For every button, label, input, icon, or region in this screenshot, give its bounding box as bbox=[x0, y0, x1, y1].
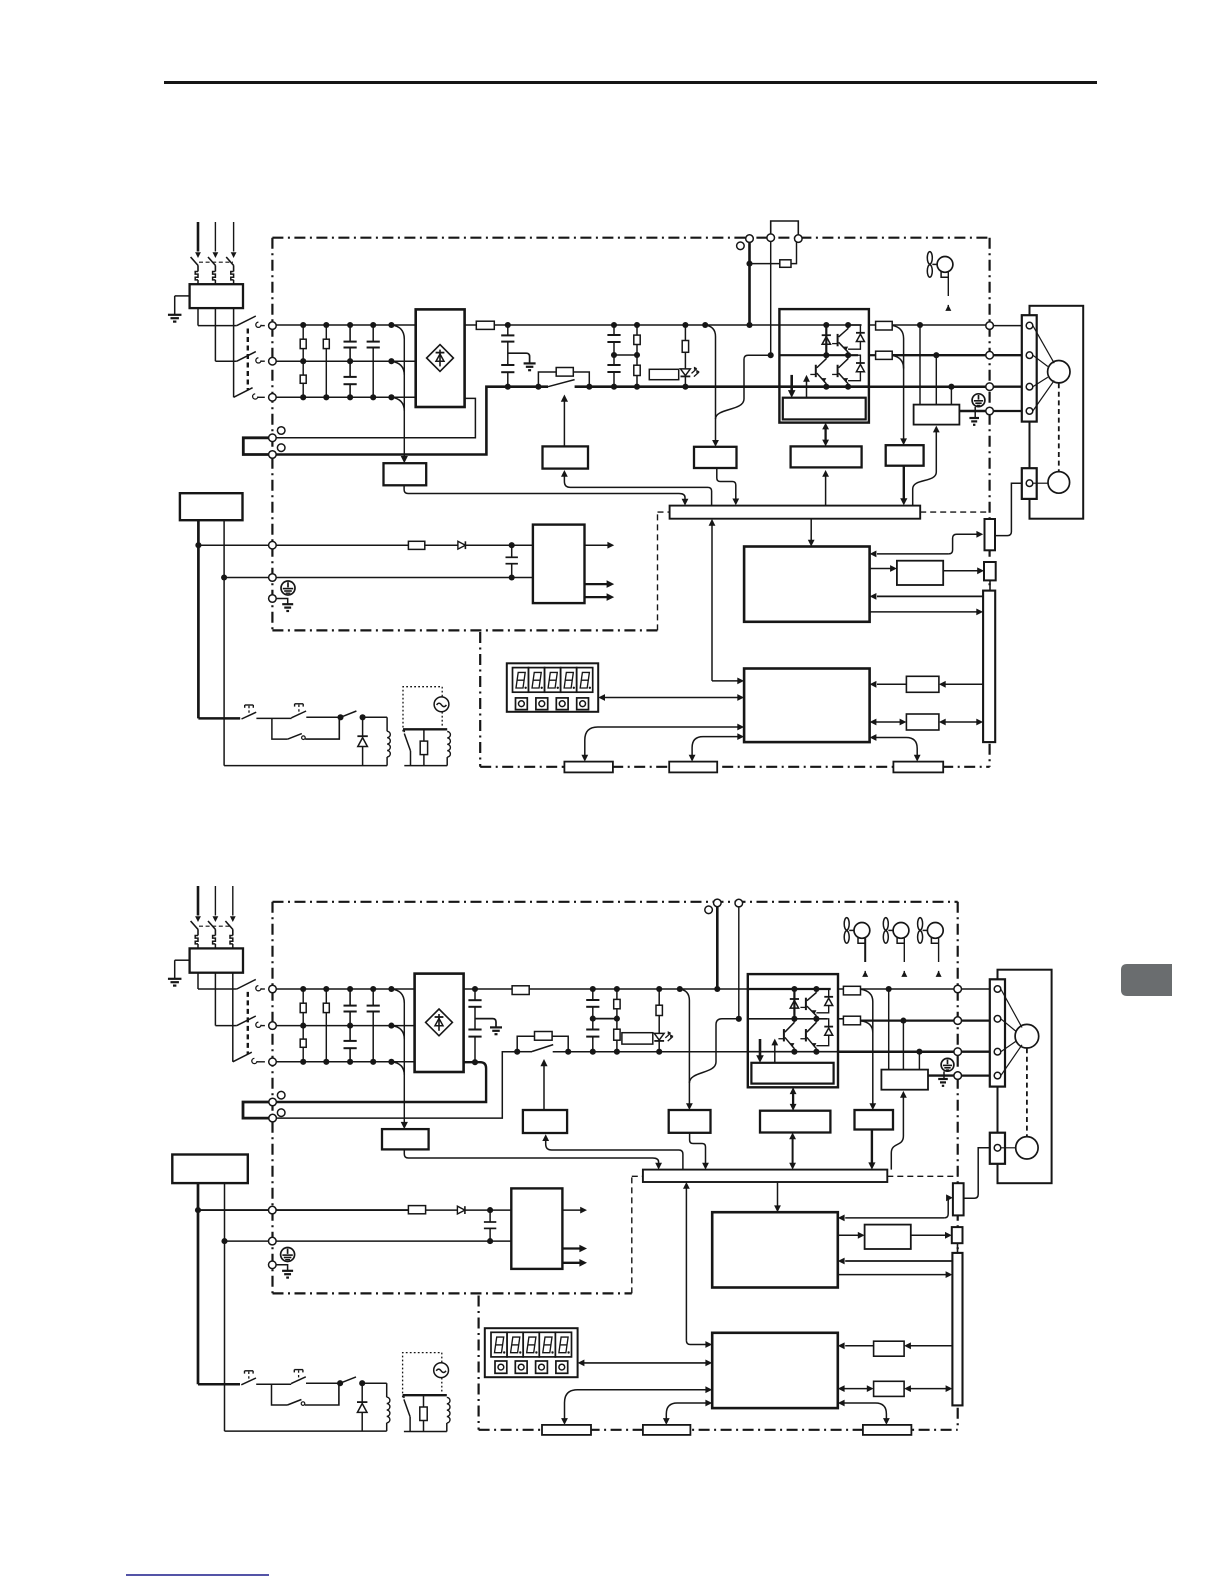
motor connector pins 2 bbox=[994, 986, 1001, 993]
brake surge resistor bbox=[423, 729, 425, 741]
magnetic contactor pole 2 bbox=[237, 352, 256, 362]
N rail inside module bbox=[779, 385, 869, 388]
dynamic brake taps from U V W bbox=[919, 325, 921, 405]
wire pushbutton to junction bbox=[306, 716, 340, 718]
CN3 connector block bbox=[669, 762, 717, 773]
regen IGBT 2 (module left bottom) bbox=[783, 1029, 785, 1041]
protective earth symbol 2 bbox=[941, 1058, 954, 1071]
gate drive box 2 bbox=[751, 1063, 833, 1084]
motor shaft to encoder 2 (dashed) bbox=[1026, 1048, 1028, 1136]
junction L2C bbox=[221, 574, 227, 580]
P rail inside module bbox=[779, 324, 861, 326]
servopack 2 enclosure border left bbox=[271, 902, 273, 1294]
motor power connector 2 bbox=[990, 979, 1005, 1086]
junction P sense tap bbox=[702, 322, 708, 328]
terminal B2 2 bbox=[735, 899, 743, 907]
chapter tab (grey) bbox=[1121, 964, 1172, 996]
encoder connector bbox=[1022, 468, 1037, 499]
terminal spare B1 bbox=[277, 427, 285, 435]
terminal L2 2 bbox=[269, 1022, 277, 1030]
brake surge resistor 2 bbox=[423, 1395, 425, 1407]
wire V output 2 (thick) bbox=[861, 1019, 954, 1021]
control board 2 dashed link right bbox=[887, 1175, 957, 1177]
relay self-holding contact 2 bbox=[340, 1377, 356, 1383]
protective earth symbol (control) bbox=[281, 581, 295, 595]
terminal spare B2 2 bbox=[277, 1109, 285, 1117]
wire PWM control 2 to CN5 bbox=[565, 1390, 707, 1419]
terminal W bbox=[986, 383, 994, 391]
wire PWM control 2 to CN3 block bbox=[666, 1403, 706, 1419]
ground tap 2 bbox=[475, 1019, 496, 1027]
wire filter output L3 2 bbox=[232, 973, 234, 1062]
terminal L2 bbox=[269, 357, 277, 365]
wire capacitor midpoints 2 bbox=[593, 1018, 617, 1020]
wire dynamic brake to motor ground terminal bbox=[959, 410, 985, 412]
upper IGBT with diode (module right) bbox=[837, 334, 839, 346]
terminal -1 2 bbox=[269, 1098, 277, 1106]
wire B2 down to chopper node 2 bbox=[738, 907, 740, 1019]
power module box bbox=[779, 309, 869, 423]
circuit breaker link 2 (dashed) bbox=[199, 925, 232, 927]
header rule bbox=[164, 81, 1097, 84]
terminal B1/+ (regen) bbox=[746, 235, 754, 243]
voltage-sense taps from R S T bbox=[391, 325, 404, 339]
control board border bottom bbox=[480, 766, 989, 768]
motor shaft to encoder (dashed) bbox=[1058, 383, 1060, 471]
wire bus to CPU board (up arrow) bbox=[711, 525, 713, 681]
terminal +1 bbox=[269, 434, 277, 442]
terminal L1 bbox=[269, 322, 277, 330]
wire PWM control to CN5 (analog monitor) bbox=[585, 727, 738, 756]
capacitor pair to ground 2 bbox=[474, 989, 476, 1000]
PWM control box 2 bbox=[712, 1333, 838, 1408]
control power source box 2 (external) bbox=[172, 1155, 248, 1184]
regen IGBT (module left bottom) bbox=[815, 365, 817, 377]
wire bus to inrush relay drive bbox=[564, 476, 711, 505]
ground symbol (noise filter) bbox=[168, 314, 182, 316]
control power source box (external) bbox=[180, 493, 243, 520]
current sensor V 2 bbox=[843, 1016, 860, 1025]
brake relay coil 2 bbox=[447, 1397, 450, 1423]
wire B2 node to voltage detector bbox=[716, 355, 771, 419]
ground wire and symbol (control) bbox=[276, 599, 288, 604]
surge resistor column 1 bbox=[302, 325, 304, 339]
terminal W 2 bbox=[954, 1048, 962, 1056]
noise filter box bbox=[190, 284, 243, 308]
magnetic contactor 2 pole 3 bbox=[233, 1052, 252, 1062]
wire filter output L2 2 bbox=[214, 973, 216, 1026]
servopack 2 enclosure border right bbox=[957, 902, 959, 1430]
current amplifier box bbox=[886, 445, 924, 466]
current amplifier box 2 bbox=[855, 1110, 894, 1130]
wire W output (thick) bbox=[869, 385, 986, 388]
digital operator display box bbox=[507, 663, 598, 712]
pushbutton power ON 2 bbox=[294, 1369, 303, 1371]
circuit breaker mechanical link (dashed) bbox=[199, 261, 233, 263]
servomotor outline box 2 bbox=[998, 970, 1052, 1183]
control supply output arrows 2 bbox=[562, 1209, 581, 1211]
internal regenerative resistor 2 bbox=[622, 1033, 653, 1044]
wire filter output L1 bbox=[197, 308, 199, 326]
power module box 2 bbox=[748, 974, 838, 1087]
module junctions bbox=[823, 322, 829, 328]
wire line L3 to rectifier bbox=[276, 396, 416, 398]
holding contact parallel branch 2 bbox=[272, 1384, 288, 1405]
magnetic contactor 2 pole 2 bbox=[237, 1016, 256, 1026]
servopack 2 enclosure border bottom bbox=[273, 1292, 632, 1294]
wire aux to CN8 bbox=[943, 570, 978, 572]
inrush resistor with bypass contact 2 bbox=[514, 1049, 520, 1055]
CN3 encoder connector 2 bbox=[953, 1183, 964, 1215]
relay coil bbox=[363, 716, 388, 718]
junction L1C bbox=[195, 542, 201, 548]
digital operator display box 2 bbox=[485, 1328, 578, 1377]
flyback diode 2 bbox=[361, 1383, 363, 1402]
charge indicator resistor 2 bbox=[658, 989, 660, 1005]
wire bus to inrush relay drive 2 bbox=[546, 1140, 683, 1169]
wire voltage detector to bus bbox=[717, 468, 736, 500]
wire line L2 to rectifier 2 bbox=[276, 1025, 414, 1027]
wire N bus (thick) bbox=[276, 387, 548, 455]
surge resistor column 2 bbox=[325, 325, 327, 339]
wire bus to dynamic brake 2 bbox=[891, 1097, 903, 1170]
inrush relay drive box 2 bbox=[523, 1110, 567, 1133]
control board 2 border bottom bbox=[479, 1429, 958, 1431]
wires terminals to motor connector bbox=[993, 325, 1021, 327]
bleeder resistor pair 2 bbox=[616, 989, 618, 999]
noise filter box 2 bbox=[190, 948, 243, 972]
rectifier diamond symbol 2 bbox=[426, 1009, 453, 1036]
servopack enclosure border (dash-dot) top bbox=[272, 237, 989, 239]
servopack 2 enclosure border (dash-dot) top bbox=[273, 901, 958, 903]
servopack enclosure border left bbox=[271, 238, 273, 631]
charge indicator LED bbox=[681, 369, 691, 376]
smoothing capacitor bank 2 bbox=[592, 989, 594, 1000]
CN5 connector block bbox=[564, 762, 613, 773]
CN2 encoder connector bbox=[985, 519, 996, 550]
wire P bus bbox=[494, 324, 779, 326]
terminal L1 2 bbox=[269, 985, 277, 993]
CN3 connector block 2 bbox=[643, 1425, 691, 1435]
N rail inside module 2 bbox=[748, 1051, 838, 1053]
control smoothing capacitor bbox=[511, 545, 513, 557]
protective earth symbol bbox=[972, 394, 985, 407]
chopper node rail inside module bbox=[779, 354, 858, 356]
footer rule (blue) bbox=[126, 1574, 269, 1576]
operator buttons bbox=[516, 698, 528, 710]
surge resistor column 1 2 bbox=[302, 989, 304, 1003]
wire main relay line (thick) bbox=[198, 717, 240, 720]
gate drive box (inside module) bbox=[783, 398, 866, 420]
wire rectifier minus output to terminal +1 bbox=[276, 398, 475, 437]
holding contact parallel branch bbox=[272, 718, 288, 739]
terminal spare B2 bbox=[277, 444, 285, 452]
magnetic contactor pole 3 bbox=[234, 388, 253, 398]
DC reactor jumper bar (external) bbox=[243, 438, 268, 455]
wire main relay line 2 (thick) bbox=[198, 1383, 240, 1386]
wire bus 2 down to CPU box bbox=[777, 1182, 779, 1207]
wire L1C line bbox=[198, 544, 268, 546]
I/O isolator box 2 (bidirectional) bbox=[876, 721, 901, 723]
voltage sense box (input) 2 bbox=[382, 1129, 429, 1149]
brake relay top bar 2 (thick) bbox=[403, 1394, 447, 1396]
wire CN1 2 to CPU bbox=[845, 1260, 952, 1262]
ground symbol near W terminal bbox=[974, 407, 976, 418]
cooling fan 3 of 3 bbox=[918, 918, 923, 930]
internal regenerative resistor bbox=[649, 369, 678, 379]
noise filter ground wire 2 bbox=[175, 959, 190, 961]
I/O isolator box 1 bbox=[945, 683, 983, 685]
wire aux 2 to CN8 bbox=[911, 1234, 946, 1236]
encoder connector pin 2 bbox=[994, 1145, 1001, 1152]
wires connector pins to motor bbox=[1033, 326, 1054, 364]
current sensor V bbox=[869, 354, 876, 356]
regen diode 2 (module left top) bbox=[793, 989, 795, 1019]
filter capacitor column 4 bbox=[372, 325, 374, 342]
AC source circle (brake supply 2) bbox=[434, 1363, 449, 1378]
current sensor U 2 bbox=[838, 988, 843, 990]
control board border (dash-dot) left bbox=[479, 632, 481, 767]
CN8 safety connector bbox=[984, 562, 996, 580]
wire PWM control 2 to CN7 block bbox=[844, 1403, 887, 1419]
brake relay top bar (thick) bbox=[403, 728, 447, 730]
module junctions 2 bbox=[791, 986, 797, 992]
wire B2 down to chopper node bbox=[770, 242, 772, 356]
CPU control box bbox=[744, 547, 870, 622]
wires terminals 2 to connector bbox=[962, 988, 990, 990]
CPU aux interface box 2 bbox=[838, 1234, 859, 1236]
wire display 2 to PWM control (bidirectional) bbox=[584, 1362, 707, 1364]
wire W output 2 (thick) bbox=[838, 1050, 954, 1053]
motor power connector bbox=[1022, 315, 1037, 421]
motor connector pins bbox=[1026, 322, 1033, 329]
control smoothing capacitor 2 bbox=[489, 1210, 491, 1222]
junction N bus caps bbox=[505, 384, 511, 390]
three-phase supply lines R S T with arrows bbox=[197, 222, 200, 252]
ground wire and symbol (control 2) bbox=[276, 1265, 288, 1270]
pushbutton power ON bbox=[295, 703, 304, 705]
wire control source L2C drop bbox=[223, 520, 225, 765]
wire filter output L2 bbox=[214, 308, 216, 361]
main voltage detector box 2 bbox=[669, 1110, 711, 1133]
lower IGBT with diode 2 bbox=[805, 1029, 807, 1041]
CN8 connector 2 bbox=[952, 1227, 963, 1243]
relay coil 2 bbox=[362, 1382, 387, 1384]
contactor mechanical link (dashed) bbox=[247, 329, 249, 390]
wire B2 node to voltage detector 2 bbox=[689, 1019, 738, 1083]
dynamic brake circuit box 2 bbox=[881, 1070, 928, 1090]
wire PWM control to CN7 connector bbox=[876, 738, 918, 756]
interface bus bar bbox=[670, 506, 921, 519]
wire relay return line bbox=[224, 765, 387, 767]
control fuse bbox=[408, 541, 424, 549]
brake circuit bottom wire bbox=[404, 765, 447, 767]
control board border dashed link left bbox=[657, 512, 659, 630]
brake relay contact 2 bbox=[404, 1399, 410, 1416]
junction L1C 2 bbox=[195, 1207, 201, 1213]
CPU control box 2 bbox=[712, 1212, 838, 1287]
wire control source drop 2 (thick) bbox=[197, 1183, 200, 1384]
junction P-fuse bbox=[505, 322, 511, 328]
wire U output 2 bbox=[861, 988, 954, 990]
wire pushbutton 2 to junction bbox=[306, 1382, 340, 1384]
terminal B3 (regen) bbox=[795, 235, 803, 243]
wire filter output L3 bbox=[233, 308, 235, 397]
lower IGBT with diode (module right) bbox=[837, 365, 839, 377]
cooling fan 2 of 3 bbox=[883, 918, 888, 930]
ground symbol (noise filter 2) bbox=[168, 978, 182, 980]
terminal spare regen 2 bbox=[705, 906, 713, 914]
wire voltage detector 2 to bus bbox=[690, 1133, 706, 1164]
wire current amplifier 2 to bus (thick) bbox=[871, 1130, 873, 1165]
encoder connector pin bbox=[1026, 480, 1033, 487]
encoder circle 2 bbox=[1016, 1137, 1038, 1159]
magnetic contactor pole 1 bbox=[237, 316, 256, 326]
terminal spare B1 2 bbox=[277, 1091, 285, 1099]
module to interface double arrow bbox=[824, 429, 826, 440]
wire between pushbuttons bbox=[256, 717, 291, 719]
wire filter output L1 2 bbox=[197, 973, 199, 989]
wire current sensors 2 to amplifier bbox=[861, 989, 873, 1104]
encoder circle bbox=[1048, 472, 1070, 494]
brake relay coil bbox=[447, 732, 450, 758]
fuse on P bus 2 bbox=[512, 986, 529, 995]
brake relay contact bbox=[404, 734, 410, 751]
junction L2C 2 bbox=[221, 1238, 227, 1244]
servomotor outline box bbox=[1030, 306, 1084, 519]
ground tap of capacitor pair bbox=[508, 353, 530, 362]
capacitor pair to ground after fuse bbox=[507, 325, 509, 335]
CPU aux interface box bbox=[870, 568, 891, 570]
chopper rail inside module 2 bbox=[748, 1018, 827, 1020]
noise filter ground wire bbox=[175, 295, 190, 297]
wire relay return line 2 bbox=[225, 1430, 387, 1432]
wire input voltage sense to bus bbox=[404, 485, 685, 500]
operator buttons 2 bbox=[495, 1361, 507, 1373]
wire line L3 to rectifier 2 bbox=[276, 1061, 414, 1063]
motor winding circle 2 bbox=[1015, 1024, 1039, 1048]
rectifier diamond diode symbol bbox=[427, 345, 454, 372]
control board 2 dashed link left bbox=[631, 1176, 633, 1293]
control power supply box bbox=[533, 525, 585, 604]
servopack enclosure border bottom bbox=[272, 629, 657, 631]
cooling fan 1 of 3 bbox=[844, 918, 849, 930]
protective earth symbol (control 2) bbox=[281, 1248, 295, 1262]
wire N return via terminals 2 bbox=[276, 1052, 517, 1118]
control supply output arrows bbox=[585, 544, 609, 546]
wire B1 to P bus 2 (thick) bbox=[716, 907, 719, 989]
seven segment digits 2 bbox=[491, 1332, 507, 1357]
pushbutton power OFF 2 bbox=[245, 1370, 254, 1372]
wire B1 to P bus (thick) bbox=[748, 242, 751, 325]
wire L2C line 2 bbox=[225, 1240, 269, 1242]
wire rectifier minus to terminals 2 (thick) bbox=[472, 1059, 478, 1065]
wire L1C line 2 bbox=[198, 1209, 269, 1211]
wire line L1 to rectifier 2 bbox=[276, 988, 414, 990]
terminal L1C 2 bbox=[269, 1206, 277, 1214]
contactor link 2 (dashed) bbox=[247, 992, 249, 1054]
flyback diode bbox=[362, 717, 364, 736]
seven segment digits bbox=[513, 668, 529, 693]
terminal motor frame ground 2 bbox=[954, 1072, 962, 1080]
smoothing capacitor bank bbox=[613, 325, 615, 335]
terminal U 2 bbox=[954, 985, 962, 993]
terminal U bbox=[986, 322, 994, 330]
terminal +2 bbox=[269, 451, 277, 459]
CN7 connector block 2 bbox=[863, 1425, 912, 1435]
wire display to PWM control (bidirectional) bbox=[604, 697, 738, 699]
brake power supply dotted outline bbox=[403, 687, 442, 732]
wire U output bbox=[892, 324, 986, 326]
wires connector pins 2 to motor bbox=[1001, 989, 1022, 1028]
regen diode (module left top) bbox=[825, 325, 827, 355]
terminal V 2 bbox=[954, 1017, 962, 1025]
gate signal arrows bbox=[790, 375, 793, 391]
main voltage detector box bbox=[694, 447, 737, 468]
wire dynamic brake 2 to ground terminal bbox=[928, 1074, 954, 1076]
relay self-holding contact bbox=[341, 711, 357, 717]
dynamic brake circuit box bbox=[914, 405, 960, 425]
wire CPU to CN2 (serial) bbox=[877, 553, 949, 555]
wire encoder to CN2 bbox=[995, 483, 1022, 535]
ground symbol near W terminal 2 bbox=[943, 1071, 945, 1078]
terminal L2C 2 bbox=[269, 1237, 277, 1245]
wire control source L1C drop (thick) bbox=[197, 520, 200, 718]
control board border dashed link right bbox=[920, 511, 989, 513]
wire capacitor midpoints bbox=[614, 354, 637, 356]
filter capacitor column 3 2 bbox=[349, 989, 351, 1006]
inrush relay drive box bbox=[543, 446, 589, 468]
AC source circle (brake supply) bbox=[434, 697, 449, 712]
wire P sense to voltage detector 2 bbox=[680, 989, 690, 1105]
charge indicator resistor bbox=[684, 325, 686, 341]
fuse on P bus bbox=[465, 324, 477, 326]
surge resistor column 2 2 bbox=[325, 989, 327, 1003]
terminal L3 bbox=[269, 394, 277, 402]
DC reactor jumper bar 2 (external) bbox=[243, 1102, 269, 1118]
wire line L1 to rectifier bbox=[276, 324, 416, 326]
internal regen resistor link B1-B3 bbox=[750, 263, 780, 265]
voltage sense box (input) bbox=[384, 463, 427, 485]
gate interface box bbox=[791, 446, 862, 467]
CN5 connector block 2 bbox=[542, 1425, 591, 1435]
I/O isolator box 2 2 (bidirectional) bbox=[844, 1388, 868, 1390]
P rail inside module 2 bbox=[748, 988, 831, 990]
wire bus to dynamic brake drive bbox=[913, 432, 937, 506]
wire PWM control to CN3 connector bbox=[692, 737, 738, 756]
control power supply box 2 bbox=[511, 1188, 562, 1269]
wire V output (thick) bbox=[892, 354, 986, 356]
wire bus 2 to PWM board (up arrow) bbox=[685, 1188, 687, 1341]
wire L2C line bbox=[224, 577, 269, 579]
wire current sensors to amplifier bbox=[892, 325, 903, 439]
wire encoder 2 to CN3 bbox=[964, 1148, 990, 1198]
I/O isolator box 1 2 bbox=[910, 1345, 952, 1347]
charge indicator LED 2 bbox=[654, 1033, 664, 1040]
junction rectifier caps 2 bbox=[472, 986, 478, 992]
pushbutton power OFF bbox=[245, 704, 254, 706]
PWM control box bbox=[744, 669, 870, 743]
control rectifier diode 2 bbox=[457, 1206, 465, 1214]
encoder connector 2 bbox=[990, 1133, 1005, 1164]
terminal -2 2 bbox=[269, 1114, 277, 1122]
wire between pushbuttons 2 bbox=[256, 1383, 291, 1385]
inrush relay drive arrow bbox=[563, 402, 565, 447]
terminal ground (control 2) bbox=[269, 1261, 277, 1269]
terminal V bbox=[986, 351, 994, 359]
terminal B1 2 bbox=[714, 899, 722, 907]
magnetic contactor 2 pole 1 bbox=[237, 979, 256, 989]
